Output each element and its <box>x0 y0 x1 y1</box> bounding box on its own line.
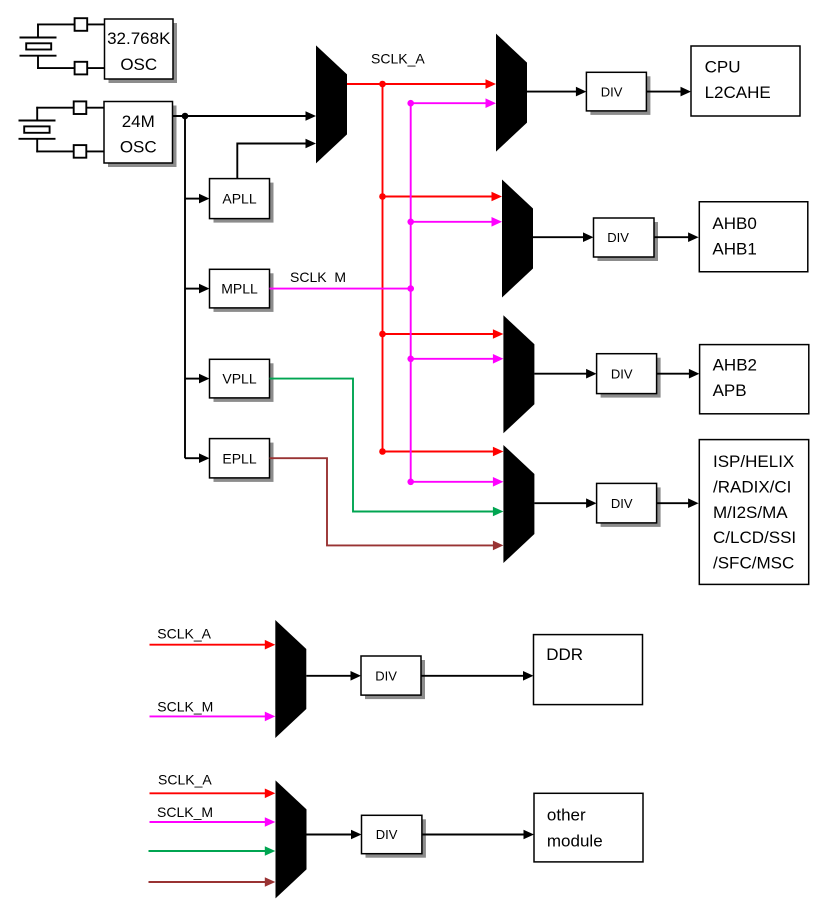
wire DIV5 to DDR <box>421 675 525 677</box>
wire DIV1 to CPU <box>646 91 682 93</box>
svg-text:APB: APB <box>713 381 747 400</box>
divider DIV6 <box>362 815 426 857</box>
node SCLK_A junction 3 <box>379 331 386 338</box>
wire DIV4 to ISP <box>657 502 691 504</box>
wire MPLL out <box>270 288 411 290</box>
wire SCLK_M to mux U5 <box>411 481 495 483</box>
svg-text:CPU: CPU <box>705 58 741 77</box>
svg-text:EPLL: EPLL <box>222 450 256 466</box>
load capacitor C3 <box>74 101 87 114</box>
pll VPLL <box>210 359 274 402</box>
wire EPLL to mux U5 <box>270 458 495 545</box>
wire SCLK_M to mux U7 <box>150 821 267 823</box>
svg-text:SCLK M: SCLK M <box>290 269 346 285</box>
node SCLK_M junction 2 <box>407 219 414 226</box>
wire to MPLL <box>185 288 201 290</box>
svg-text:MPLL: MPLL <box>221 281 258 297</box>
wire U2 to DIV1 <box>527 91 578 93</box>
svg-text:SCLK_A: SCLK_A <box>157 626 211 642</box>
wire C1 to OSC1 <box>87 23 104 25</box>
node SCLK_M junction 4 <box>407 479 414 486</box>
wire U6 to DIV5 <box>306 675 352 677</box>
mux U5 <box>503 445 534 563</box>
node SCLK_M junction 3 <box>407 356 414 363</box>
svg-text:VPLL: VPLL <box>222 371 256 387</box>
wire VPLL to mux U5 <box>270 379 495 512</box>
svg-text:SCLK_M: SCLK_M <box>157 804 213 820</box>
svg-text:APLL: APLL <box>222 191 256 207</box>
wire Y1 bottom to C2 <box>37 67 75 69</box>
svg-text:OSC: OSC <box>120 55 157 74</box>
mux U6 <box>275 620 306 738</box>
wire C4 to OSC2 <box>86 150 104 152</box>
node 24M junction <box>182 113 189 120</box>
svg-text:other: other <box>547 806 586 825</box>
wire SCLK_A to mux U7 <box>150 792 267 794</box>
svg-text:DDR: DDR <box>546 645 583 664</box>
wire DIV2 to AHB0 <box>654 236 690 238</box>
mux U4 <box>503 315 534 433</box>
svg-text:DIV: DIV <box>376 827 398 842</box>
wire DIV3 to AHB2 <box>657 373 691 375</box>
mux U7 <box>276 780 307 898</box>
node SCLK_M junction 1 <box>407 100 414 107</box>
svg-text:C/LCD/SSI: C/LCD/SSI <box>713 528 796 547</box>
mux U3 <box>502 180 533 298</box>
block other module <box>534 793 643 862</box>
wire SCLK_M to mux U6 <box>150 715 267 717</box>
wire Y2 top to C3 <box>36 107 73 109</box>
svg-text:M/I2S/MA: M/I2S/MA <box>713 503 788 522</box>
svg-text:32.768K: 32.768K <box>107 29 171 48</box>
wire to VPLL <box>185 378 201 380</box>
svg-text:AHB2: AHB2 <box>713 356 757 375</box>
wire SCLK_A to mux U3 <box>383 196 494 198</box>
wire SCLK_M to mux U4 <box>411 358 495 360</box>
crystal Y2 <box>19 107 56 153</box>
wire C3 to OSC2 <box>86 107 104 109</box>
wire SCLK_A to mux U6 <box>150 644 267 646</box>
svg-text:DIV: DIV <box>601 84 623 99</box>
divider DIV3 <box>597 354 661 398</box>
mux U2 <box>496 34 527 152</box>
svg-text:DIV: DIV <box>611 366 633 381</box>
wire SCLK_A U1 to U2 <box>347 83 487 85</box>
load capacitor C1 <box>75 18 88 31</box>
svg-text:DIV: DIV <box>611 496 633 511</box>
wire to EPLL <box>185 457 201 459</box>
wire Y2 bottom to C4 <box>36 150 73 152</box>
node SCLK_A junction 4 <box>379 448 386 455</box>
wire Y1 top to C1 <box>37 23 75 25</box>
pll EPLL <box>210 439 274 482</box>
block ISP/HELIX/RADIX/CIM/I2S/MAC/LCD/SSI/SFC/MSC <box>699 440 808 585</box>
wire VPLL clock to mux U7 <box>149 850 267 852</box>
node SCLK_A junction 1 <box>379 81 386 88</box>
block AHB2/APB <box>700 345 809 414</box>
wire SCLK_M vertical <box>410 103 412 482</box>
crystal Y1 <box>20 24 57 70</box>
wire PLL feed vertical <box>184 116 186 458</box>
mux U1 <box>316 45 347 163</box>
wire SCLK_A vertical <box>382 84 384 452</box>
svg-text:/RADIX/CI: /RADIX/CI <box>713 477 791 496</box>
wire C2 to OSC1 <box>87 67 104 69</box>
wire SCLK_M to mux U3 <box>411 221 493 223</box>
divider DIV5 <box>361 656 425 699</box>
svg-text:AHB1: AHB1 <box>712 239 756 258</box>
pll APLL <box>210 179 274 223</box>
svg-text:SCLK_M: SCLK_M <box>157 698 213 714</box>
divider DIV1 <box>586 72 650 115</box>
node SCLK_A junction 2 <box>379 193 386 200</box>
block DDR <box>534 635 643 705</box>
node SCLK_M junction 0 <box>407 285 414 292</box>
svg-text:DIV: DIV <box>375 668 397 683</box>
wire U3 to DIV2 <box>533 236 585 238</box>
oscillator OSC1 32.768K <box>105 19 178 83</box>
svg-text:24M: 24M <box>122 112 155 131</box>
svg-text:DIV: DIV <box>607 230 629 245</box>
svg-text:SCLK_A: SCLK_A <box>158 772 212 788</box>
wire U5 to DIV4 <box>534 502 588 504</box>
wire OSC2 to mux U1 <box>173 115 308 117</box>
oscillator OSC2 24M <box>104 102 177 168</box>
svg-text:ISP/HELIX: ISP/HELIX <box>713 452 794 471</box>
svg-text:/SFC/MSC: /SFC/MSC <box>713 554 794 573</box>
wire SCLK_M to mux U2 <box>411 102 487 104</box>
svg-text:AHB0: AHB0 <box>712 214 756 233</box>
divider DIV2 <box>594 218 659 261</box>
wire U7 to DIV6 <box>307 834 354 836</box>
wire SCLK_A to mux U5 <box>383 451 495 453</box>
wire EPLL clock to mux U7 <box>149 881 267 883</box>
load capacitor C4 <box>74 145 87 158</box>
wire APLL to mux U1 <box>237 144 307 179</box>
svg-text:OSC: OSC <box>120 138 157 157</box>
block CPU/L2CAHE <box>691 46 800 116</box>
wire SCLK_A to mux U4 <box>383 333 495 335</box>
svg-text:module: module <box>547 831 603 850</box>
svg-text:L2CAHE: L2CAHE <box>705 83 771 102</box>
pll MPLL <box>210 269 274 312</box>
load capacitor C2 <box>75 62 88 75</box>
svg-text:SCLK_A: SCLK_A <box>371 51 425 67</box>
wire to APLL <box>185 198 201 200</box>
divider DIV4 <box>597 483 661 527</box>
wire DIV6 to other module <box>422 834 526 836</box>
wire U4 to DIV3 <box>534 373 588 375</box>
block AHB0/AHB1 <box>699 202 808 272</box>
